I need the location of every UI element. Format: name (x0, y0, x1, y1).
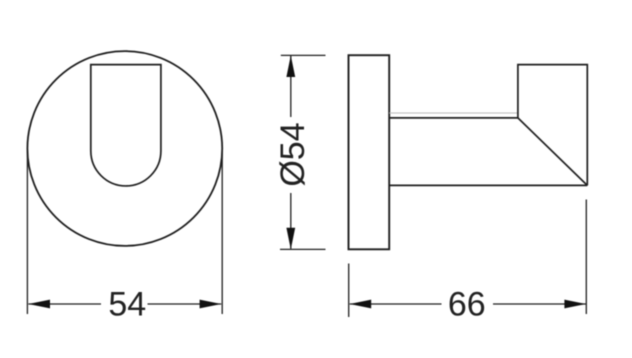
svg-text:66: 66 (448, 286, 486, 324)
svg-text:Ø54: Ø54 (274, 122, 312, 186)
svg-text:54: 54 (108, 286, 146, 324)
